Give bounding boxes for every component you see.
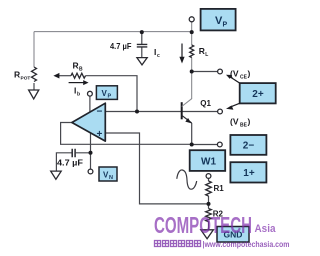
arrow 2+ to VBE [230,103,240,107]
svg-text:2+: 2+ [252,89,264,100]
junction R1R2 node [207,202,211,206]
terminal VBE [218,109,223,114]
resistor RL [190,45,194,57]
capacitor top 4.7uF [137,44,148,47]
wire dark segments [34,32,218,230]
svg-text:2−: 2− [243,141,255,152]
capacitor C2 4.7uF [72,149,75,158]
terminal op-amp V+ [88,91,93,96]
svg-text:−: − [97,107,103,118]
resistor R1 [206,181,212,196]
box GND [217,227,249,243]
wire Rpot bottom to ground [33,83,35,90]
wire cap C2 to V- node [56,153,90,171]
wire top rail from Vp node to left column [34,22,192,99]
svg-text:1+: 1+ [243,168,255,179]
watermark COMPOTECH Asia [154,212,276,238]
terminal 2- [217,142,222,147]
wire base from op-amp minus to VBE terminal [105,111,217,113]
svg-text:BE: BE [240,122,248,128]
svg-text:+: + [97,129,103,140]
svg-text:c: c [157,53,160,59]
wire W1 node to 2- terminal [192,144,218,146]
terminal VN [88,169,93,174]
ground below top cap [137,58,147,65]
junction collector node [190,70,194,74]
terminal VCE [218,69,223,74]
wiper arrowhead [53,73,59,79]
svg-text:R: R [199,46,205,56]
wire op-amp V+ supply stub [89,96,91,113]
svg-text:COMPOTECH: COMPOTECH [154,212,252,238]
svg-text:POT: POT [21,75,31,81]
svg-text:W1: W1 [201,157,216,168]
wire op-amp V- supply stub [90,134,92,170]
arrow 2+ to VCE [230,77,240,84]
wire top cap branch [141,32,143,57]
sine symbol [177,170,197,189]
resistor RPOT [32,67,37,82]
svg-text:): ) [248,116,251,126]
wire wiper arrow line [57,75,71,77]
junction VP rail [190,30,194,34]
op-amp U1 [72,103,105,141]
resistor R2 [206,209,212,222]
junction V- node [89,151,93,155]
current arrow Ic [181,44,183,58]
svg-text:): ) [248,68,251,78]
svg-text:(V: (V [230,116,239,126]
wire emitter down to W1 node [191,123,193,145]
wire R1 to W1 terminal [208,178,210,204]
svg-text:Asia: Asia [255,223,277,235]
resistor RB [71,73,86,78]
box W1 [190,150,226,171]
svg-text:B: B [79,66,83,72]
watermark chinese line [155,239,290,249]
svg-text:R: R [14,69,20,79]
box 1+ [230,162,266,182]
box 2- [230,135,266,155]
wire op-amp output feedback to emitter node [61,123,192,145]
box VN [99,167,117,181]
junction base node [135,110,139,114]
current arrow Ib [69,82,84,84]
box VP small [96,86,117,100]
svg-text:R1: R1 [214,184,225,193]
svg-text:P: P [223,22,228,29]
svg-text:Q1: Q1 [200,99,211,108]
svg-text:4.7 µF: 4.7 µF [57,157,83,167]
terminal VP top [189,17,194,22]
ground below RPOT [29,90,39,99]
wire op-amp plus input down to R1R2 node [105,133,208,204]
junction top cap [140,30,144,34]
ground below R2 [201,230,214,239]
svg-text:R: R [73,60,79,70]
svg-text:CE: CE [240,74,248,80]
wire collector to VCE terminal [192,71,218,73]
transistor Q1 [182,99,192,124]
ground below C2 [51,171,62,179]
svg-text:P: P [108,94,112,100]
svg-text:L: L [205,52,208,58]
svg-text:(V: (V [230,68,239,78]
svg-text:4.7 µF: 4.7 µF [110,41,132,51]
svg-text:b: b [77,91,80,97]
terminal W1 [206,174,211,179]
wire R2 to ground [208,204,210,230]
box 2+ [240,83,276,103]
junction emitter node [190,143,194,147]
wire Rb to base corner [86,76,138,112]
box VP top [201,9,236,31]
svg-text:|www.compotechasia.com: |www.compotechasia.com [203,239,290,249]
svg-text:N: N [109,175,113,181]
